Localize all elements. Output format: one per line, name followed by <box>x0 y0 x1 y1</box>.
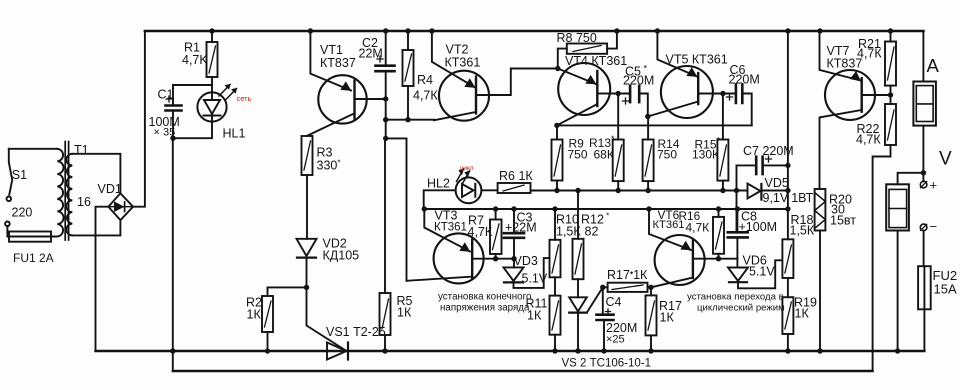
transistor VT5 <box>648 31 736 118</box>
svg-text:S1: S1 <box>12 168 27 182</box>
svg-text:R8 750: R8 750 <box>557 31 597 45</box>
svg-text:5.1V: 5.1V <box>749 265 775 279</box>
svg-text:VT5 КТ361: VT5 КТ361 <box>666 53 728 67</box>
svg-text:Т1: Т1 <box>74 143 89 157</box>
svg-text:4,7K: 4,7K <box>182 53 208 67</box>
svg-text:1,5К: 1,5К <box>790 224 815 238</box>
wire C1 branch down + rail2 riser <box>172 138 174 371</box>
svg-text:220М: 220М <box>623 74 654 88</box>
svg-text:VT3: VT3 <box>435 209 458 223</box>
resistor R1 <box>207 31 218 93</box>
svg-text:КТ361: КТ361 <box>434 222 467 234</box>
svg-text:× 35: × 35 <box>154 127 176 139</box>
capacitor C7 <box>737 156 788 191</box>
svg-text:750: 750 <box>657 147 677 161</box>
wire secondary top to bridge <box>72 154 120 194</box>
wire VD5 node column <box>737 31 788 239</box>
svg-text:4,7К: 4,7К <box>413 89 438 103</box>
terminal plus <box>920 173 927 188</box>
svg-text:КТ361: КТ361 <box>445 56 481 70</box>
terminal minus <box>920 224 927 266</box>
wire lower return rail <box>173 370 873 372</box>
svg-text:1,5К: 1,5К <box>556 225 581 239</box>
svg-text:220М: 220М <box>729 73 760 87</box>
svg-text:220: 220 <box>12 206 33 220</box>
transistor VT7 <box>820 31 891 189</box>
svg-text:×25: ×25 <box>606 334 625 346</box>
svg-text:68К: 68К <box>594 147 614 161</box>
svg-text:цикл: цикл <box>460 165 474 172</box>
svg-text:установка перехода в: установка перехода в <box>687 292 784 303</box>
switch S1 <box>5 149 12 226</box>
wire bridge minus to bottom rail <box>96 207 109 351</box>
zener VD3 <box>504 258 550 288</box>
svg-text:750: 750 <box>568 147 588 161</box>
LED HL2 <box>424 169 498 209</box>
svg-text:22М: 22М <box>359 47 383 61</box>
capacitor C4 <box>597 287 614 351</box>
zener VD5 <box>737 184 788 200</box>
svg-text:4,7К: 4,7К <box>468 225 493 239</box>
svg-text:R4: R4 <box>417 73 433 87</box>
svg-text:9,1V1ВТ: 9,1V1ВТ <box>763 191 814 205</box>
svg-text:1К: 1К <box>660 311 675 325</box>
resistor R3 <box>302 136 313 239</box>
svg-text:C4: C4 <box>606 295 622 309</box>
wire VT1 base node <box>386 99 434 138</box>
svg-text:1К: 1К <box>795 307 810 321</box>
svg-text:сеть: сеть <box>237 94 252 103</box>
svg-text:HL1: HL1 <box>223 127 246 141</box>
svg-text:C7 220М: C7 220М <box>743 144 794 158</box>
svg-text:циклический режим: циклический режим <box>697 303 785 314</box>
resistor R17 <box>646 287 657 351</box>
svg-text:VD1: VD1 <box>98 182 122 196</box>
resistor R6 <box>498 183 531 193</box>
wire VT3 emitter bus <box>424 208 788 210</box>
svg-text:HL2: HL2 <box>427 177 450 191</box>
transformer T1 <box>57 142 72 241</box>
transistor VT6 <box>649 209 737 287</box>
resistor R15 <box>717 94 728 191</box>
transistor VT2 <box>432 31 558 121</box>
svg-text:4,7К: 4,7К <box>856 133 881 147</box>
transistor VT3 <box>407 209 515 283</box>
svg-text:15А: 15А <box>934 282 957 297</box>
fuse FU1 <box>7 226 57 242</box>
resistor R11 <box>550 277 561 351</box>
capacitor C5 <box>623 86 648 117</box>
svg-text:КД105: КД105 <box>323 249 360 263</box>
svg-text:4,7К: 4,7К <box>857 47 882 61</box>
resistor R16 <box>713 209 724 259</box>
svg-text:FU1 2A: FU1 2A <box>13 251 54 265</box>
svg-text:5.1V: 5.1V <box>522 272 548 286</box>
svg-text:VD5: VD5 <box>765 176 789 190</box>
capacitor C1 <box>166 85 213 138</box>
svg-text:КТ837: КТ837 <box>320 56 356 70</box>
svg-text:+: + <box>930 178 938 193</box>
svg-text:130К: 130К <box>692 147 719 161</box>
capacitor C6 <box>727 84 752 125</box>
svg-text:−: − <box>930 219 938 234</box>
svg-text:C1: C1 <box>158 88 174 102</box>
resistor R18 <box>782 239 793 278</box>
LED HL1 <box>173 85 237 139</box>
svg-text:16: 16 <box>77 195 91 209</box>
svg-text:VD3: VD3 <box>514 254 538 268</box>
thyristor VS1 <box>307 287 349 359</box>
zener VD6 <box>728 259 782 289</box>
svg-text:R6 1К: R6 1К <box>499 169 533 183</box>
resistor R20 <box>815 189 826 351</box>
transistor VT4 <box>557 63 630 125</box>
svg-text:VS 2 ТС106-10-1: VS 2 ТС106-10-1 <box>562 358 652 370</box>
wire multivibrator bottom bus <box>531 190 748 192</box>
capacitor C2 <box>376 31 395 99</box>
resistor R10 <box>550 209 561 277</box>
resistor R12 <box>573 191 584 280</box>
capacitor C3 <box>504 209 524 259</box>
diode bridge VD1 <box>108 193 133 220</box>
svg-text:R3: R3 <box>317 146 333 160</box>
resistor R19 <box>782 278 793 351</box>
wire secondary bottom to bridge <box>72 220 120 235</box>
resistor R13 <box>613 94 624 191</box>
svg-text:+100М: +100М <box>739 220 778 234</box>
svg-text:1К: 1К <box>247 308 262 322</box>
wire top positive rail <box>145 30 924 33</box>
svg-text:82: 82 <box>585 225 599 239</box>
svg-text:1К: 1К <box>397 306 412 320</box>
svg-text:VT1: VT1 <box>320 43 343 57</box>
wire VT4 collector bus <box>557 124 752 126</box>
fuse FU2 <box>918 266 931 351</box>
resistor R21 <box>885 31 896 104</box>
resistor R8 <box>558 31 617 69</box>
wire VT3 collector riser <box>386 138 407 280</box>
resistor R14 <box>643 117 654 191</box>
transistor VT1 <box>307 31 386 136</box>
wire S1 top to primary <box>9 148 58 150</box>
resistor R22 <box>873 104 896 371</box>
svg-text:4,7К: 4,7К <box>686 221 710 235</box>
wire bridge plus to top rail <box>133 31 145 207</box>
resistor R2 <box>262 287 307 351</box>
svg-text:V: V <box>939 149 952 170</box>
voltmeter V <box>886 173 923 351</box>
thyristor VS2 <box>569 279 603 351</box>
svg-text:VS1 Т2-25: VS1 Т2-25 <box>326 325 386 339</box>
resistor R4 <box>403 31 414 120</box>
resistor R9 <box>552 125 563 190</box>
trimmer R17a <box>603 283 651 292</box>
ammeter A <box>913 31 936 173</box>
resistor R7 <box>490 209 502 259</box>
capacitor C8 <box>728 209 748 259</box>
svg-text:R17•1К: R17•1К <box>607 268 648 282</box>
diode VD2 <box>297 239 317 288</box>
wire bottom negative rail <box>96 350 925 352</box>
svg-text:+22М: +22М <box>505 221 537 235</box>
svg-text:VT4 КТ361: VT4 КТ361 <box>565 54 627 68</box>
svg-text:15вт: 15вт <box>830 214 856 228</box>
svg-text:установка конечного: установка конечного <box>438 292 532 303</box>
svg-text:VT2: VT2 <box>446 43 469 57</box>
svg-text:A: A <box>927 55 940 76</box>
svg-text:напряжения заряда: напряжения заряда <box>440 303 530 314</box>
resistor R5 <box>380 138 391 351</box>
svg-text:330*: 330* <box>317 159 341 173</box>
